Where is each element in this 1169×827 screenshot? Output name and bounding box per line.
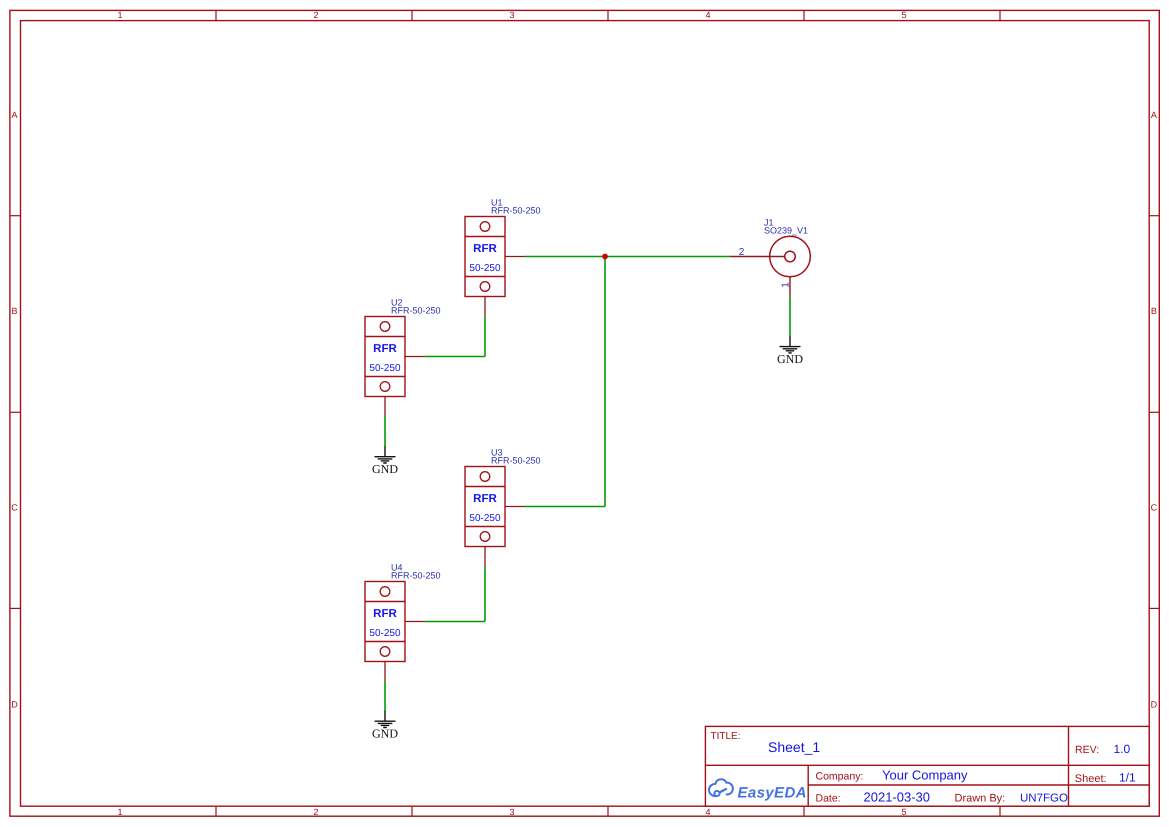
wire U1.2 to junction <box>525 256 605 258</box>
svg-text:RFR-50-250: RFR-50-250 <box>391 571 441 581</box>
svg-text:C: C <box>1151 502 1158 512</box>
svg-text:TITLE:: TITLE: <box>711 731 741 742</box>
svg-text:EasyEDA: EasyEDA <box>738 784 807 801</box>
resistor U2 RFR-50-250 <box>365 298 441 417</box>
wire to U2.2 <box>425 356 485 358</box>
svg-text:GND: GND <box>372 727 398 741</box>
wire junction to J1.2 <box>605 256 730 258</box>
svg-text:B: B <box>1151 306 1157 316</box>
J1 pin 1 (bottom) <box>789 277 791 297</box>
resistor U3 RFR-50-250 <box>465 448 541 567</box>
svg-text:B: B <box>11 306 17 316</box>
svg-text:50-250: 50-250 <box>469 263 501 274</box>
U2 pin 2 (right) <box>405 356 425 358</box>
svg-text:D: D <box>1151 699 1158 709</box>
frame column labels top <box>117 10 906 20</box>
resistor U1 RFR-50-250 <box>465 198 541 317</box>
svg-text:A: A <box>11 110 17 120</box>
U3 pin 1 (bottom) <box>484 547 486 567</box>
svg-text:SO239_V1: SO239_V1 <box>764 226 808 236</box>
connector J1 SO239_V1 <box>730 218 810 298</box>
svg-text:1/1: 1/1 <box>1119 771 1136 785</box>
svg-text:C: C <box>11 502 18 512</box>
svg-text:GND: GND <box>372 462 398 476</box>
svg-text:2: 2 <box>313 10 318 20</box>
svg-text:D: D <box>11 699 18 709</box>
svg-text:4: 4 <box>705 10 710 20</box>
svg-text:1: 1 <box>117 807 122 817</box>
U3 pin 2 (right) <box>505 506 525 508</box>
svg-text:RFR-50-250: RFR-50-250 <box>391 306 441 316</box>
svg-text:4: 4 <box>705 807 710 817</box>
frame column ticks bottom <box>216 806 1000 816</box>
svg-text:5: 5 <box>901 10 906 20</box>
svg-text:Drawn By:: Drawn By: <box>955 792 1006 804</box>
U1 pin 2 (right) <box>505 256 525 258</box>
svg-text:RFR: RFR <box>473 493 497 505</box>
svg-text:RFR: RFR <box>373 608 397 620</box>
frame row labels left <box>11 110 18 709</box>
svg-text:50-250: 50-250 <box>369 363 401 374</box>
frame row labels right <box>1151 110 1158 709</box>
svg-text:Company:: Company: <box>816 771 864 783</box>
U4 pin 2 (right) <box>405 621 425 623</box>
wire U1.1 down <box>484 317 486 357</box>
svg-text:1: 1 <box>117 10 122 20</box>
svg-text:RFR-50-250: RFR-50-250 <box>491 206 541 216</box>
EasyEDA logo cloud icon <box>709 779 733 796</box>
svg-text:1.0: 1.0 <box>1114 742 1131 756</box>
svg-text:5: 5 <box>901 807 906 817</box>
frame column ticks top <box>216 10 1000 20</box>
wire to U3.2 <box>525 506 605 508</box>
wire junction down <box>604 257 606 507</box>
svg-text:RFR: RFR <box>373 343 397 355</box>
wire U3.1 down <box>484 567 486 622</box>
svg-text:UN7FGO: UN7FGO <box>1020 792 1068 804</box>
wire U2.1 to ground <box>384 417 386 448</box>
svg-text:RFR-50-250: RFR-50-250 <box>491 456 541 466</box>
svg-text:Date:: Date: <box>816 792 841 804</box>
wire J1.1 to ground <box>789 297 791 337</box>
wire U4.1 to ground <box>384 682 386 712</box>
frame row ticks right <box>1149 216 1159 609</box>
frame row ticks left <box>10 216 21 609</box>
svg-text:3: 3 <box>509 10 514 20</box>
svg-text:Sheet_1: Sheet_1 <box>768 739 820 755</box>
J1 pin 2 (left) <box>730 256 784 258</box>
svg-text:REV:: REV: <box>1075 744 1099 756</box>
resistor U4 RFR-50-250 <box>365 563 441 682</box>
svg-text:RFR: RFR <box>473 243 497 255</box>
title block outline <box>705 726 1149 806</box>
U4 pin 1 (bottom) <box>384 662 386 682</box>
ground GND (U2) <box>372 447 398 476</box>
ground GND (J1) <box>777 337 803 366</box>
junction dot <box>602 254 608 260</box>
U1 pin 1 (bottom) <box>484 297 486 317</box>
wire to U4.2 <box>425 621 485 623</box>
svg-text:50-250: 50-250 <box>469 513 501 524</box>
svg-text:2021-03-30: 2021-03-30 <box>864 789 931 804</box>
frame column labels bottom <box>117 807 906 817</box>
svg-text:A: A <box>1151 110 1157 120</box>
svg-text:Sheet:: Sheet: <box>1075 773 1107 785</box>
svg-text:50-250: 50-250 <box>369 628 401 639</box>
ground GND (U4) <box>372 711 398 740</box>
svg-text:2: 2 <box>313 807 318 817</box>
svg-text:GND: GND <box>777 352 803 366</box>
svg-text:1: 1 <box>781 282 792 288</box>
svg-text:3: 3 <box>509 807 514 817</box>
U2 pin 1 (bottom) <box>384 397 386 417</box>
svg-text:2: 2 <box>739 247 745 258</box>
svg-text:Your Company: Your Company <box>882 768 968 783</box>
